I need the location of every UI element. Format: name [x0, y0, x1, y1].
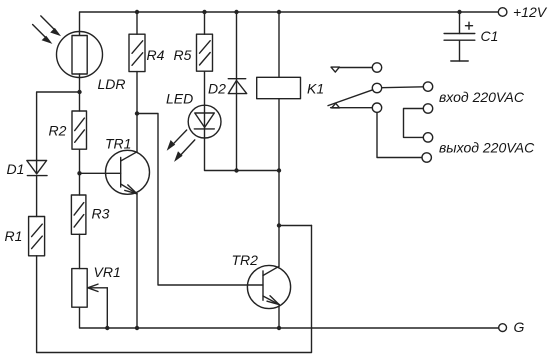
svg-text:выход 220VAC: выход 220VAC [439, 139, 535, 155]
junction: TR1 base node [77, 171, 81, 175]
wire: TR2 emitter to ground bus [278, 306, 280, 328]
svg-text:C1: C1 [481, 28, 499, 44]
diode D2 [228, 12, 246, 171]
resistor R2 [72, 111, 87, 149]
wire: R3 bottom to VR1 top [79, 234, 81, 268]
LDR light arrow 2 [33, 25, 53, 44]
LED [188, 105, 221, 138]
svg-text:G: G [514, 319, 525, 335]
svg-text:R3: R3 [92, 205, 110, 221]
node: вход terminal lower [423, 104, 432, 113]
junction: C1 top on rail [457, 10, 461, 14]
junction: wiper on bus [105, 326, 109, 330]
wire: R5 bottom to LED [204, 71, 206, 105]
photoresistor LDR [57, 32, 103, 78]
svg-text:TR1: TR1 [105, 135, 131, 151]
wire: VR1 wiper down to ground bus [106, 288, 108, 328]
svg-text:R1: R1 [5, 228, 23, 244]
junction: D2 top on rail [234, 10, 238, 14]
LDR light arrow 1 [41, 16, 61, 36]
wire: coil node down to TR2 collector [278, 171, 280, 267]
svg-text:+12V: +12V [513, 4, 548, 20]
junction: TR1 emitter on bus [135, 326, 139, 330]
junction: TR2 collector / feedback branch [277, 223, 281, 227]
resistor R5 [197, 34, 213, 71]
relay contact: NO fixed contact [331, 103, 382, 112]
svg-text:R2: R2 [49, 123, 67, 139]
LED light arrow 1 [167, 130, 187, 151]
transistor TR2 [247, 265, 290, 308]
svg-text:LDR: LDR [98, 76, 126, 92]
svg-text:вход 220VAC: вход 220VAC [439, 89, 525, 105]
junction: R4 top on rail [135, 10, 139, 14]
node G terminal [499, 324, 507, 332]
svg-text:VR1: VR1 [94, 264, 121, 280]
wire: R1 bottom to feedback line [37, 226, 312, 353]
junction: TR2 emitter on bus [277, 326, 281, 330]
node: выход terminal lower [422, 153, 431, 162]
wire: LDR bottom to R2 [79, 74, 81, 111]
wire: R4 bottom to TR1 collector [136, 72, 138, 152]
node +12V terminal [498, 8, 507, 17]
resistor R3 [71, 195, 86, 234]
wire: NO contact down to выход lower [377, 112, 422, 157]
capacitor C1 [444, 12, 475, 61]
wire: bracket вход to выход [404, 109, 424, 138]
LED light arrow 2 [174, 140, 195, 162]
diode D1 [27, 161, 47, 176]
wire: TR1 emitter to ground bus [136, 194, 138, 328]
resistor R4 [129, 34, 145, 71]
junction: R4 bottom branch [135, 111, 139, 115]
junction: K1 bottom node [277, 168, 281, 172]
node: выход terminal upper [423, 133, 432, 142]
wire: LED cathode down to coil node [205, 138, 280, 171]
svg-text:R5: R5 [174, 47, 192, 63]
potentiometer VR1 [72, 269, 108, 308]
transistor TR1 [106, 150, 150, 194]
wire: D1 to R1 [36, 176, 38, 217]
relay contact: NC fixed contact [331, 63, 382, 72]
wire: branch to feedback vertical [279, 225, 312, 227]
junction: LDR bottom / D1 branch [77, 90, 81, 94]
svg-text:D1: D1 [7, 161, 25, 177]
wire: R2 bottom to base node [79, 149, 81, 195]
junction: R5 top on rail [202, 10, 206, 14]
wire: +12V top rail [80, 12, 499, 36]
relay coil K1 [257, 12, 301, 171]
node: вход terminal upper [423, 82, 432, 91]
wire: base node to TR1 base [80, 172, 121, 174]
relay contact: movable pole [328, 83, 382, 108]
wire: rail to R5 [204, 12, 206, 34]
wire: pole link to right terminal [382, 86, 424, 89]
wire: branch to TR2 base [137, 114, 263, 286]
svg-text:D2: D2 [208, 80, 226, 96]
wire: rail to R4 [136, 12, 138, 34]
svg-text:TR2: TR2 [232, 252, 259, 268]
wire: VR1 bottom to ground bus [80, 307, 499, 328]
resistor R1 [29, 217, 45, 256]
svg-text:R4: R4 [147, 47, 165, 63]
junction: D2 bottom [234, 168, 238, 172]
junction: K1 top on rail [277, 10, 281, 14]
svg-text:K1: K1 [307, 80, 324, 96]
svg-text:LED: LED [166, 90, 193, 106]
wire: branch left to D1 chain [37, 92, 80, 161]
C1 polarity plus [466, 22, 473, 29]
